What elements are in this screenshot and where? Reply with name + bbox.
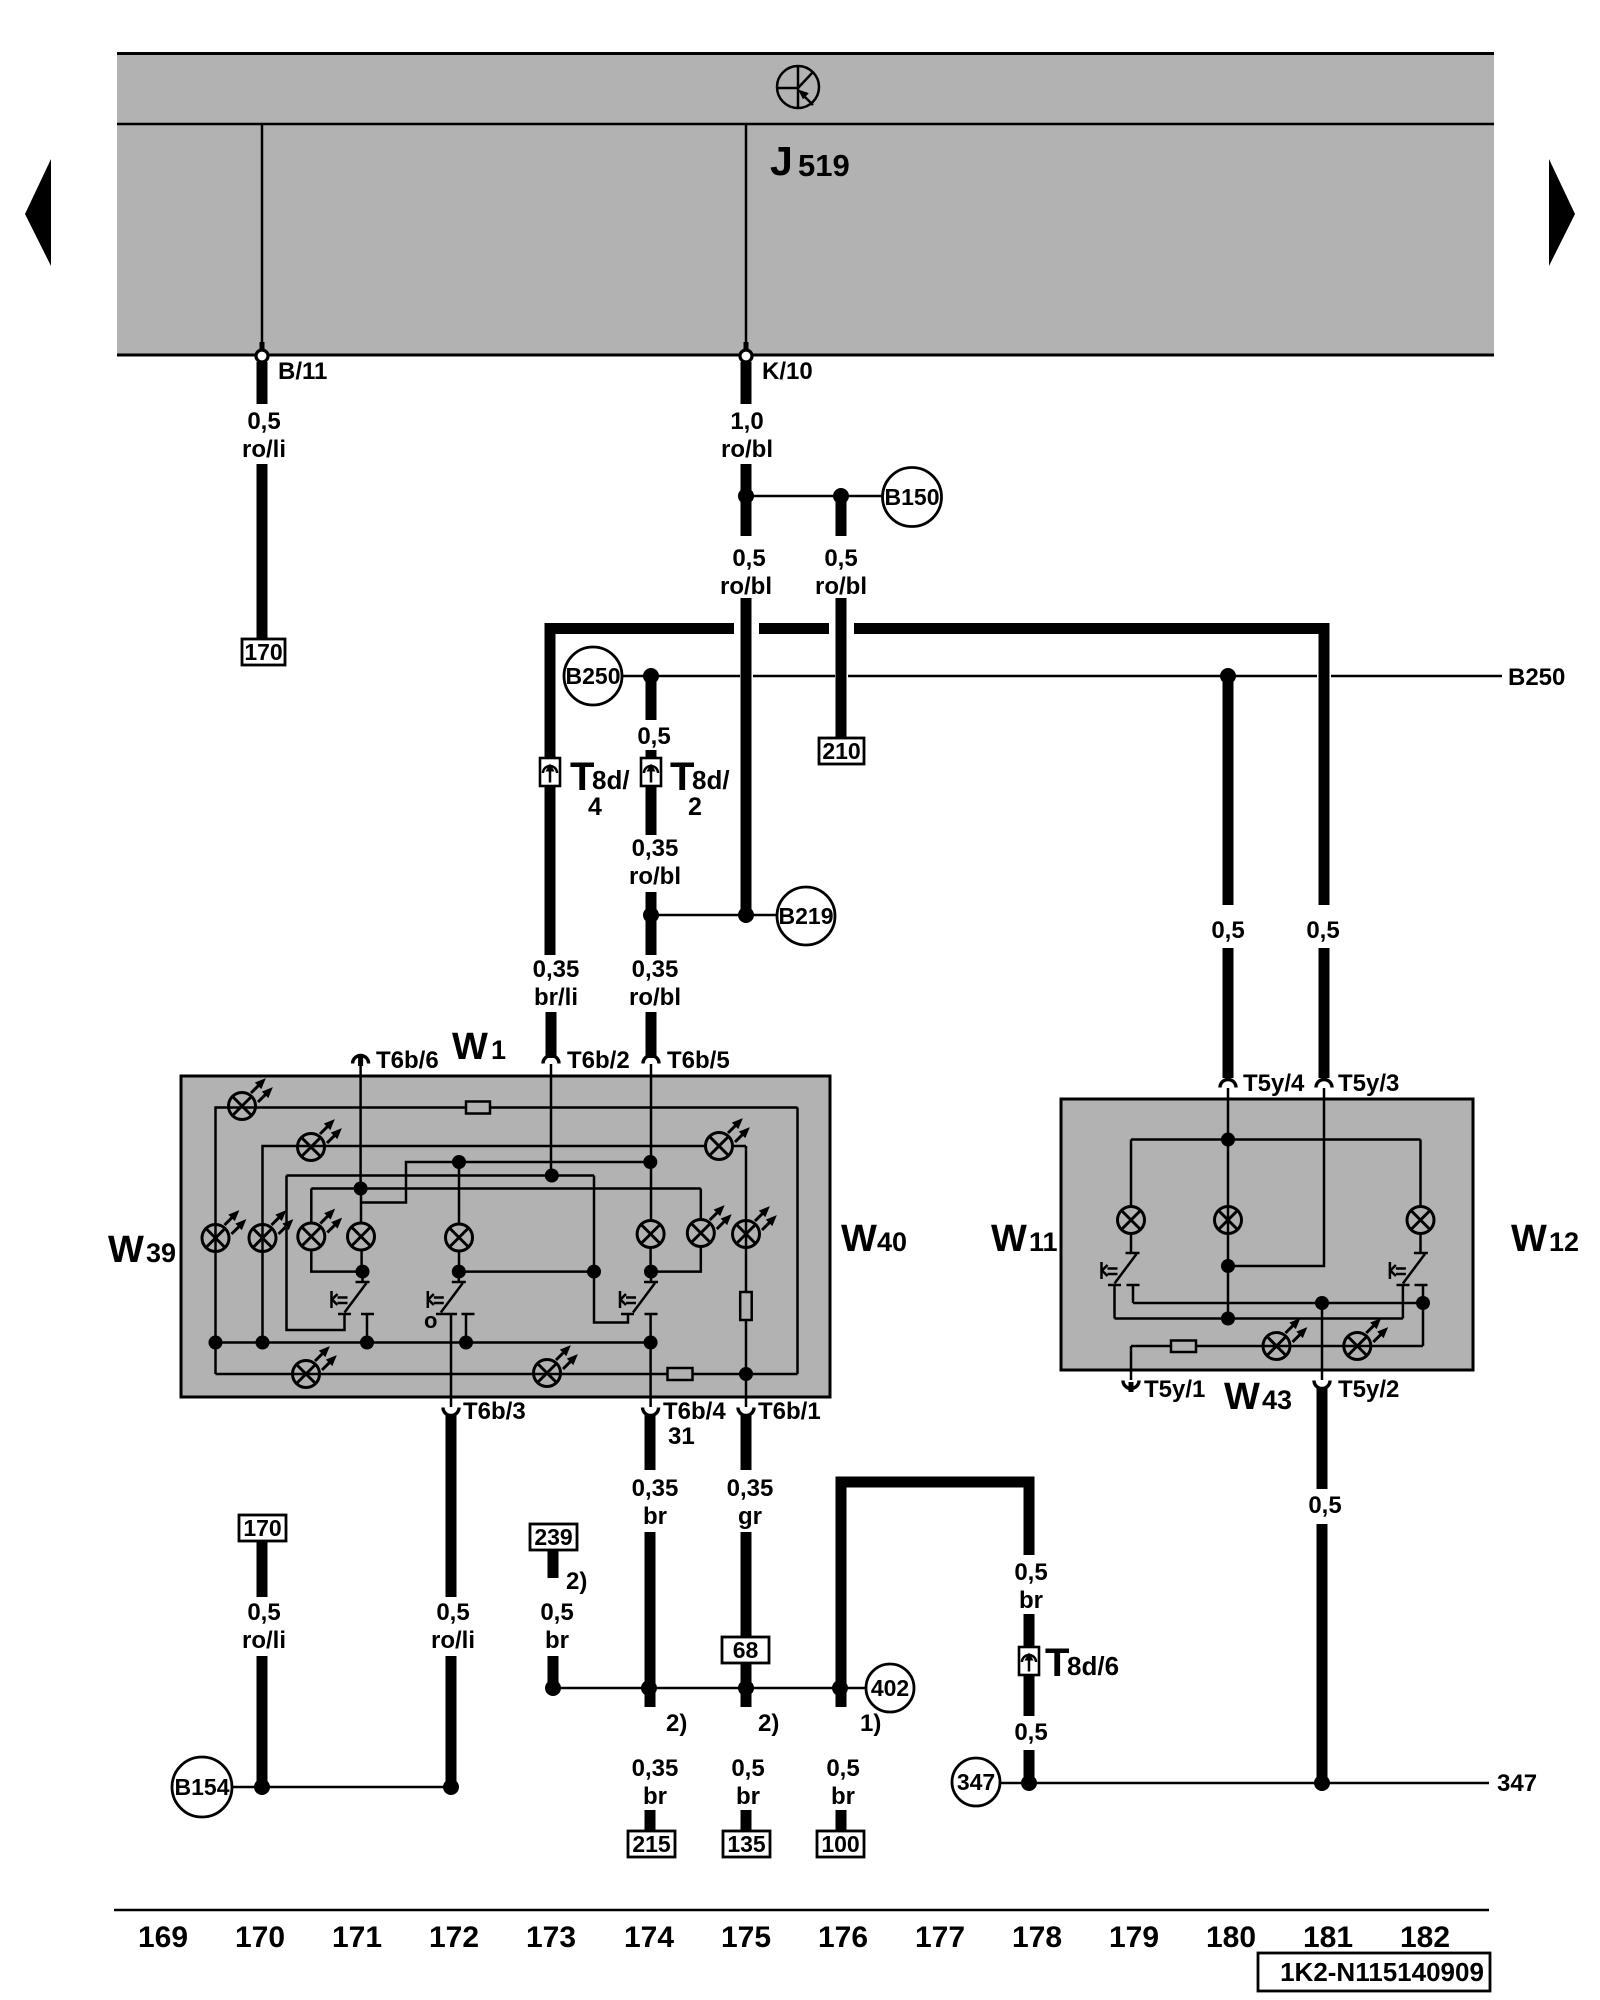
wire from 239 box stub — [548, 1550, 559, 1578]
switch F5 — [1390, 1253, 1428, 1346]
wire lamp E6 vertical — [360, 1189, 363, 1225]
svg-text:2): 2) — [666, 1710, 687, 1737]
svg-text:0,35: 0,35 — [632, 835, 679, 862]
switch F2 with 0 position mark — [424, 1272, 475, 1398]
svg-text:135: 135 — [727, 1831, 766, 1857]
net line to B219 — [651, 914, 777, 917]
wire T5y/2 lower segment — [1317, 1524, 1328, 1783]
wire destination box 215 — [628, 1831, 675, 1857]
wire T6b/3 lower segment — [446, 1656, 457, 1787]
junction lamp E7 on line A — [452, 1155, 466, 1169]
svg-text:402: 402 — [871, 1675, 909, 1701]
lamp E5 (illuminated) — [298, 1205, 346, 1250]
wire T6b/4 middle segment — [645, 1532, 656, 1707]
svg-text:ro/bl: ro/bl — [721, 436, 773, 463]
value label 0,5 ro/li (170 branch) — [242, 1599, 286, 1654]
resistor R3 — [668, 1368, 693, 1380]
svg-text:0,5: 0,5 — [540, 1599, 573, 1626]
connection circle B219 — [777, 887, 835, 945]
pin T6b/2 — [543, 1047, 630, 1078]
internal right-side wire — [796, 1108, 799, 1375]
junction second vertical / bottom mid wire — [256, 1336, 270, 1350]
internal top wire — [1131, 1138, 1421, 1141]
svg-text:2): 2) — [566, 1568, 587, 1595]
svg-text:182: 182 — [1400, 1921, 1450, 1954]
svg-text:br: br — [1019, 1587, 1043, 1614]
lamp L5 (illuminated) — [1344, 1315, 1392, 1360]
svg-text:0,35: 0,35 — [632, 1475, 679, 1502]
wire from 239 box lower segment — [548, 1656, 559, 1688]
junction switch F3 base — [644, 1265, 658, 1279]
svg-text:215: 215 — [632, 1831, 671, 1857]
connector label T8d/4 — [570, 755, 630, 821]
svg-text:0,5: 0,5 — [247, 1599, 280, 1626]
svg-text:0,35: 0,35 — [533, 956, 580, 983]
svg-text:173: 173 — [526, 1921, 576, 1954]
svg-text:W: W — [1224, 1376, 1260, 1418]
wire left branch to lamp row — [263, 1146, 299, 1343]
wire inside J519 to pin K/10 — [745, 124, 748, 349]
junction switch F2 base — [452, 1265, 466, 1279]
svg-text:0,5: 0,5 — [1308, 1492, 1341, 1519]
connector label T8d/6 — [1045, 1641, 1119, 1685]
wire K/10 upper segment 1,0 ro/bl — [741, 362, 752, 404]
switch F1 — [332, 1272, 375, 1343]
svg-text:0,5: 0,5 — [247, 408, 280, 435]
label W1 — [452, 1026, 506, 1068]
svg-text:T5y/4: T5y/4 — [1243, 1070, 1305, 1097]
svg-text:1: 1 — [491, 1035, 506, 1065]
wire destination box 210 — [819, 738, 864, 764]
bus corner down-left to T8d/4 — [545, 623, 556, 757]
junction on T8d/2 branch at B219 line — [643, 907, 659, 923]
svg-text:W: W — [452, 1026, 488, 1068]
wire left drop to lamp L1 — [1130, 1140, 1133, 1209]
wire lamp E11 link — [732, 1145, 746, 1148]
wire lamp L3 to switch F5 — [1419, 1233, 1422, 1253]
svg-text:ro/bl: ro/bl — [720, 573, 772, 600]
svg-text:o: o — [424, 1308, 437, 1333]
svg-text:179: 179 — [1109, 1921, 1159, 1954]
svg-text:170: 170 — [244, 639, 282, 665]
svg-text:0,5: 0,5 — [826, 1755, 859, 1782]
svg-text:180: 180 — [1206, 1921, 1256, 1954]
svg-text:4: 4 — [588, 793, 602, 821]
svg-text:T6b/3: T6b/3 — [463, 1398, 526, 1425]
svg-text:1K2-N115140909: 1K2-N115140909 — [1280, 1957, 1484, 1987]
wire K/10 middle segment — [741, 464, 752, 536]
junction switch F1 contact on bottom mid wire — [360, 1336, 374, 1350]
wire T6b/2 vertical — [550, 1078, 553, 1176]
junction T8d/6 branch on 347 line — [1021, 1775, 1037, 1791]
value label 0,35 ro/bl (wire to T6b/5) — [629, 956, 681, 1011]
ground net line to 402 — [553, 1687, 866, 1690]
connector symbol T8d/2 — [641, 758, 661, 786]
bottom mid wire — [216, 1341, 651, 1344]
pin T6b/1 — [738, 1398, 821, 1425]
lamp E6 — [348, 1223, 375, 1250]
bus corner down-right to T5y/3 — [1319, 623, 1330, 905]
junction T6b/2 on line B — [545, 1169, 559, 1183]
svg-text:2: 2 — [688, 793, 702, 821]
svg-text:170: 170 — [243, 1515, 281, 1541]
wire lamp E5 bottom to switch F1 base — [311, 1250, 362, 1272]
junction T5y/2 on contact line — [1315, 1296, 1329, 1310]
wire below 68 box — [741, 1663, 752, 1707]
svg-text:br: br — [736, 1783, 760, 1810]
junction T6b/1 wire on 402 line — [738, 1680, 754, 1696]
svg-text:K/10: K/10 — [762, 358, 813, 385]
wire segment to 347 line — [1024, 1750, 1035, 1783]
value label 0,35 br/li (wire to T6b/2) — [533, 956, 580, 1011]
svg-text:T6b/4: T6b/4 — [663, 1398, 726, 1425]
wire line B right drop — [594, 1176, 628, 1323]
wire segment to B219 junction — [646, 892, 657, 955]
svg-text:0,5: 0,5 — [1211, 917, 1244, 944]
pin T5y/1 — [1123, 1370, 1205, 1403]
wire K/10 lower segment to B219 — [741, 598, 752, 915]
internal second wire — [298, 1145, 706, 1148]
label J519 — [770, 138, 850, 184]
junction 239 branch on 402 line — [545, 1680, 561, 1696]
junction on B250 line at T8d/2 branch — [643, 668, 659, 684]
svg-text:43: 43 — [1262, 1385, 1292, 1415]
switch F3 — [620, 1272, 658, 1343]
svg-text:br: br — [545, 1627, 569, 1654]
wire segment below T8d/2 — [646, 786, 657, 835]
wire bottom lamp line — [1131, 1345, 1423, 1348]
wire base link F2 to drop wire — [459, 1270, 594, 1273]
wire line A with corner to lamp E6 — [361, 1162, 650, 1203]
svg-text:0,35: 0,35 — [727, 1475, 774, 1502]
junction 170 branch on B154 line — [254, 1779, 270, 1795]
value label 0,35 br (T6b/4 wire) — [632, 1475, 679, 1530]
lamp E10 (illuminated) — [733, 1203, 781, 1248]
junction T5y/4 on top wire — [1221, 1133, 1235, 1147]
svg-text:ro/bl: ro/bl — [815, 573, 867, 600]
svg-text:176: 176 — [818, 1921, 868, 1954]
net line B250 segment 3 — [848, 675, 1317, 678]
svg-text:175: 175 — [721, 1921, 771, 1954]
page navigation arrow right — [1549, 159, 1575, 266]
wire into 135 box — [741, 1810, 752, 1832]
value label 0,5 ro/bl (K/10 branch) — [720, 545, 772, 600]
svg-text:169: 169 — [138, 1921, 188, 1954]
resistor R2 — [740, 1292, 752, 1320]
svg-text:B150: B150 — [885, 484, 940, 510]
internal bottom wire — [216, 1373, 798, 1376]
svg-text:ro/bl: ro/bl — [629, 863, 681, 890]
wire destination box 100 — [817, 1831, 864, 1857]
wire lamp E5 top connection — [310, 1189, 313, 1225]
svg-text:2): 2) — [758, 1710, 779, 1737]
interconnection box 68 — [722, 1637, 769, 1663]
wire inside J519 to pin B/11 — [261, 124, 264, 349]
svg-text:12: 12 — [1549, 1227, 1579, 1257]
svg-text:ro/li: ro/li — [242, 1627, 286, 1654]
svg-text:39: 39 — [146, 1238, 176, 1268]
junction T6b/5 on line A — [643, 1155, 657, 1169]
svg-text:0,5: 0,5 — [1306, 917, 1339, 944]
resistor R4 — [1171, 1341, 1196, 1353]
svg-text:ro/li: ro/li — [242, 436, 286, 463]
wire T5y/4 vertical — [1227, 1100, 1230, 1319]
svg-text:519: 519 — [798, 148, 850, 183]
connection circle B154 — [172, 1757, 232, 1817]
svg-text:68: 68 — [733, 1637, 759, 1663]
pin T6b/5 — [643, 1047, 730, 1078]
lamp E12 (illuminated, on bottom wire) — [293, 1343, 341, 1388]
connection circle 347 — [952, 1758, 1000, 1806]
lamp E13 (illuminated, on bottom wire) — [534, 1342, 582, 1387]
wire branch segment above 210 — [836, 496, 847, 536]
wire T6b/3 upper segment — [446, 1415, 457, 1597]
pin ring B/11 — [260, 342, 265, 350]
wire from lamp W39 chain (left outer vertical) — [216, 1108, 230, 1375]
connection circle B250 — [564, 647, 622, 705]
junction T5y/3 link on T5y/4 wire — [1221, 1259, 1235, 1273]
svg-text:0,5: 0,5 — [1014, 1719, 1047, 1746]
value label 0,5 br (135 branch) — [731, 1755, 764, 1810]
wire T5y/1 internal vertical — [1130, 1346, 1133, 1370]
wire loop from 402 line up and over to T8d/6 — [841, 1482, 1029, 1689]
svg-text:0,5: 0,5 — [824, 545, 857, 572]
svg-text:br/li: br/li — [534, 984, 578, 1011]
junction T5y/4 wire on emitter line — [1221, 1312, 1235, 1326]
svg-text:210: 210 — [822, 738, 860, 764]
label W12 — [1511, 1218, 1579, 1260]
wire B/11 lower segment — [257, 464, 268, 640]
value label 0,35 br (215 branch) — [632, 1755, 679, 1810]
svg-text:J: J — [770, 138, 793, 184]
resistor R1 — [466, 1102, 490, 1114]
svg-text:1,0: 1,0 — [730, 408, 763, 435]
wire T5y/3 vertical and link to T5y/4 wire — [1228, 1100, 1324, 1266]
wire destination box 135 — [723, 1831, 770, 1857]
svg-text:40: 40 — [877, 1227, 907, 1257]
svg-text:178: 178 — [1012, 1921, 1062, 1954]
svg-text:br: br — [643, 1783, 667, 1810]
switch F4 — [1102, 1253, 1140, 1319]
lamp L3 — [1407, 1207, 1434, 1234]
value label 0,35 ro/bl (T8d/2 branch) — [629, 835, 681, 890]
control unit J519 body — [117, 52, 1494, 355]
diagram number box 1K2-N115140909 — [1258, 1953, 1490, 1991]
page navigation arrow left — [25, 159, 51, 266]
value label 0,5 ro/li (B/11 wire) — [242, 408, 286, 463]
svg-text:T: T — [1045, 1641, 1069, 1685]
svg-text:181: 181 — [1303, 1921, 1353, 1954]
svg-text:ro/bl: ro/bl — [629, 984, 681, 1011]
wire line B — [287, 1174, 595, 1177]
svg-text:W: W — [1511, 1218, 1547, 1260]
svg-text:177: 177 — [915, 1921, 965, 1954]
wire T6b/1 segment into 68 — [741, 1532, 752, 1637]
svg-text:W: W — [108, 1229, 144, 1271]
pin T6b/6 — [353, 1047, 439, 1077]
wire B/11 upper segment 0,5 ro/li — [257, 362, 268, 404]
svg-text:T6b/1: T6b/1 — [758, 1398, 821, 1425]
svg-text:8d/: 8d/ — [692, 765, 730, 795]
label W40 — [841, 1218, 907, 1260]
svg-text:W: W — [841, 1218, 877, 1260]
main thick bus wire (middle segment) — [759, 623, 829, 634]
wire below T8d/6 — [1024, 1675, 1035, 1716]
svg-text:0,35: 0,35 — [632, 1755, 679, 1782]
wire from 170 box lower segment — [257, 1656, 268, 1787]
wire base link F3 to lamp E9 — [651, 1246, 701, 1272]
lamp E4 (on second vertical) — [249, 1207, 297, 1252]
junction switch F1 base — [356, 1265, 370, 1279]
connector symbol T8d/6 — [1019, 1647, 1039, 1675]
connection circle 402 — [866, 1664, 914, 1712]
junction left outer / bottom mid wire — [209, 1336, 223, 1350]
svg-text:W: W — [991, 1218, 1027, 1260]
value label 0,5 br (100 branch) — [826, 1755, 859, 1810]
svg-text:0,5: 0,5 — [731, 1755, 764, 1782]
lamp E9 (illuminated) — [687, 1202, 735, 1247]
wire T6b/4 vertical — [649, 1343, 652, 1399]
svg-text:8d/6: 8d/6 — [1067, 1651, 1119, 1681]
wire origin box 239 — [530, 1524, 577, 1550]
wire right drop to lamp L3 — [1419, 1140, 1422, 1209]
wire T6b/1 upper segment — [741, 1415, 752, 1470]
net line B250 segment 4 — [1331, 675, 1502, 678]
svg-text:gr: gr — [738, 1503, 762, 1530]
lamp E1 (top left, illuminated) — [229, 1075, 277, 1120]
junction switch F3 contact / T6b/4 wire — [644, 1336, 658, 1350]
wire lamp E9 top to line C — [700, 1189, 703, 1221]
svg-text:0,5: 0,5 — [732, 545, 765, 572]
svg-text:T5y/3: T5y/3 — [1338, 1070, 1399, 1097]
wire segment T5y/3 branch lower — [1319, 948, 1330, 1078]
value label 0,5 ro/bl (210 branch) — [815, 545, 867, 600]
lamp E2 (illuminated) — [298, 1116, 346, 1161]
main thick bus wire (right segment) — [854, 623, 1324, 634]
wire tap line to B150 — [746, 495, 882, 498]
wire into 100 box — [836, 1810, 847, 1832]
value label 0,5 ro/li (T6b/3 wire) — [431, 1599, 475, 1654]
switch unit W11/W12/W43 body — [1061, 1099, 1473, 1370]
svg-text:239: 239 — [534, 1524, 572, 1550]
wire segment into T6b/5 pin — [646, 1012, 657, 1058]
wire branch segment into 210 — [836, 598, 847, 739]
svg-text:B250: B250 — [566, 663, 621, 689]
wire from 170 box upper segment — [257, 1541, 268, 1597]
wire switch contact line — [1133, 1302, 1423, 1305]
wire lamp E7 top connection — [458, 1162, 461, 1225]
junction 100 branch on 402 line — [832, 1680, 848, 1696]
lamp L4 (illuminated) — [1263, 1315, 1311, 1360]
wire into 215 box — [645, 1810, 656, 1832]
pin T5y/4 — [1220, 1070, 1305, 1100]
svg-text:8d/: 8d/ — [592, 765, 630, 795]
lamp L1 — [1118, 1207, 1145, 1234]
lamp E3 (on left outer vertical) — [202, 1207, 250, 1252]
svg-text:347: 347 — [957, 1769, 995, 1795]
wire segment into T6b/2 pin — [546, 1012, 557, 1058]
junction right vertical / bottom wire — [739, 1367, 753, 1381]
junction on B150 tap for 210 branch — [833, 488, 849, 504]
wire lamp E8 bottom to switch F3 base — [649, 1247, 652, 1272]
junction on B250 line at T5y/4 branch — [1220, 668, 1236, 684]
svg-text:T5y/1: T5y/1 — [1144, 1376, 1205, 1403]
wire T5y/2 internal vertical — [1321, 1303, 1324, 1370]
label W43 — [1224, 1376, 1292, 1418]
svg-text:31: 31 — [668, 1423, 695, 1450]
junction T6b/3 wire on B154 line — [443, 1779, 459, 1795]
wire segment T5y/4 branch upper — [1223, 676, 1234, 905]
svg-text:0,5: 0,5 — [637, 723, 670, 750]
wire lamp W40 chain vertical (right) — [745, 1146, 748, 1398]
svg-text:172: 172 — [429, 1921, 479, 1954]
junction T5y/2 wire on 347 line — [1314, 1775, 1330, 1791]
pin T6b/3 — [443, 1398, 526, 1425]
svg-text:171: 171 — [332, 1921, 382, 1954]
wire segment T5y/4 branch lower — [1223, 948, 1234, 1078]
junction of K/10 wire on B219 line — [738, 907, 754, 923]
connector label T8d/2 — [670, 755, 730, 821]
wire segment into T8d/2 — [646, 750, 657, 760]
current track scale line — [114, 1909, 1489, 1912]
pin ring K/10 — [744, 342, 749, 350]
junction T6b/6 on line C — [354, 1182, 368, 1196]
wire segment into T8d/6 — [1024, 1614, 1035, 1648]
wire T6b/4 upper segment — [645, 1415, 656, 1470]
svg-text:170: 170 — [235, 1921, 285, 1954]
net line 347 — [1000, 1782, 1489, 1785]
wire segment below T8d/4 — [545, 786, 556, 955]
junction T6b/4 wire on 402 line — [641, 1680, 657, 1696]
wire lamp E7 bottom to switch F2 base — [458, 1251, 461, 1272]
wire T5y/2 upper segment — [1317, 1388, 1328, 1489]
value label 0,5 br (239 branch) — [540, 1599, 573, 1654]
svg-text:0,5: 0,5 — [436, 1599, 469, 1626]
value label 1,0 ro/bl (K/10 wire) — [721, 408, 773, 463]
svg-text:347: 347 — [1497, 1770, 1537, 1797]
svg-text:1): 1) — [860, 1710, 881, 1737]
connector symbol T8d/4 — [540, 758, 560, 786]
pin T6b/4 with internal pin 31 — [643, 1398, 727, 1450]
svg-text:B250: B250 — [1508, 664, 1565, 691]
junction switch F2 contact on bottom mid wire — [459, 1336, 473, 1350]
svg-text:B/11: B/11 — [278, 358, 327, 385]
wire segment below B250 junction 0,5 — [646, 676, 657, 720]
wire emitter line — [1115, 1317, 1403, 1320]
wire lamp E6 to switch F1 base — [360, 1250, 363, 1272]
main thick bus wire (left segment) — [550, 623, 734, 634]
svg-text:11: 11 — [1029, 1227, 1058, 1257]
svg-text:T6b/2: T6b/2 — [567, 1047, 630, 1074]
junction drop wire / base link — [587, 1265, 601, 1279]
lamp E7 — [446, 1224, 473, 1251]
net line B250 segment 2 — [753, 675, 835, 678]
svg-text:ro/li: ro/li — [431, 1627, 475, 1654]
svg-text:B219: B219 — [779, 903, 834, 929]
pin T5y/2 — [1314, 1370, 1399, 1403]
junction switch F5 contact on contact line — [1416, 1296, 1430, 1310]
lamp E8 — [637, 1221, 664, 1248]
pin T5y/3 — [1316, 1070, 1399, 1100]
value label 0,5 br (T8d/6 branch) — [1014, 1559, 1047, 1614]
svg-text:0,35: 0,35 — [632, 956, 679, 983]
svg-text:br: br — [831, 1783, 855, 1810]
wire destination box 170 — [242, 639, 285, 665]
junction on K/10 wire at B150 tap — [738, 488, 754, 504]
wire origin box 170 (lower left) — [239, 1515, 286, 1541]
net line B250 segment 1 — [622, 675, 740, 678]
net line B154 — [232, 1786, 451, 1789]
